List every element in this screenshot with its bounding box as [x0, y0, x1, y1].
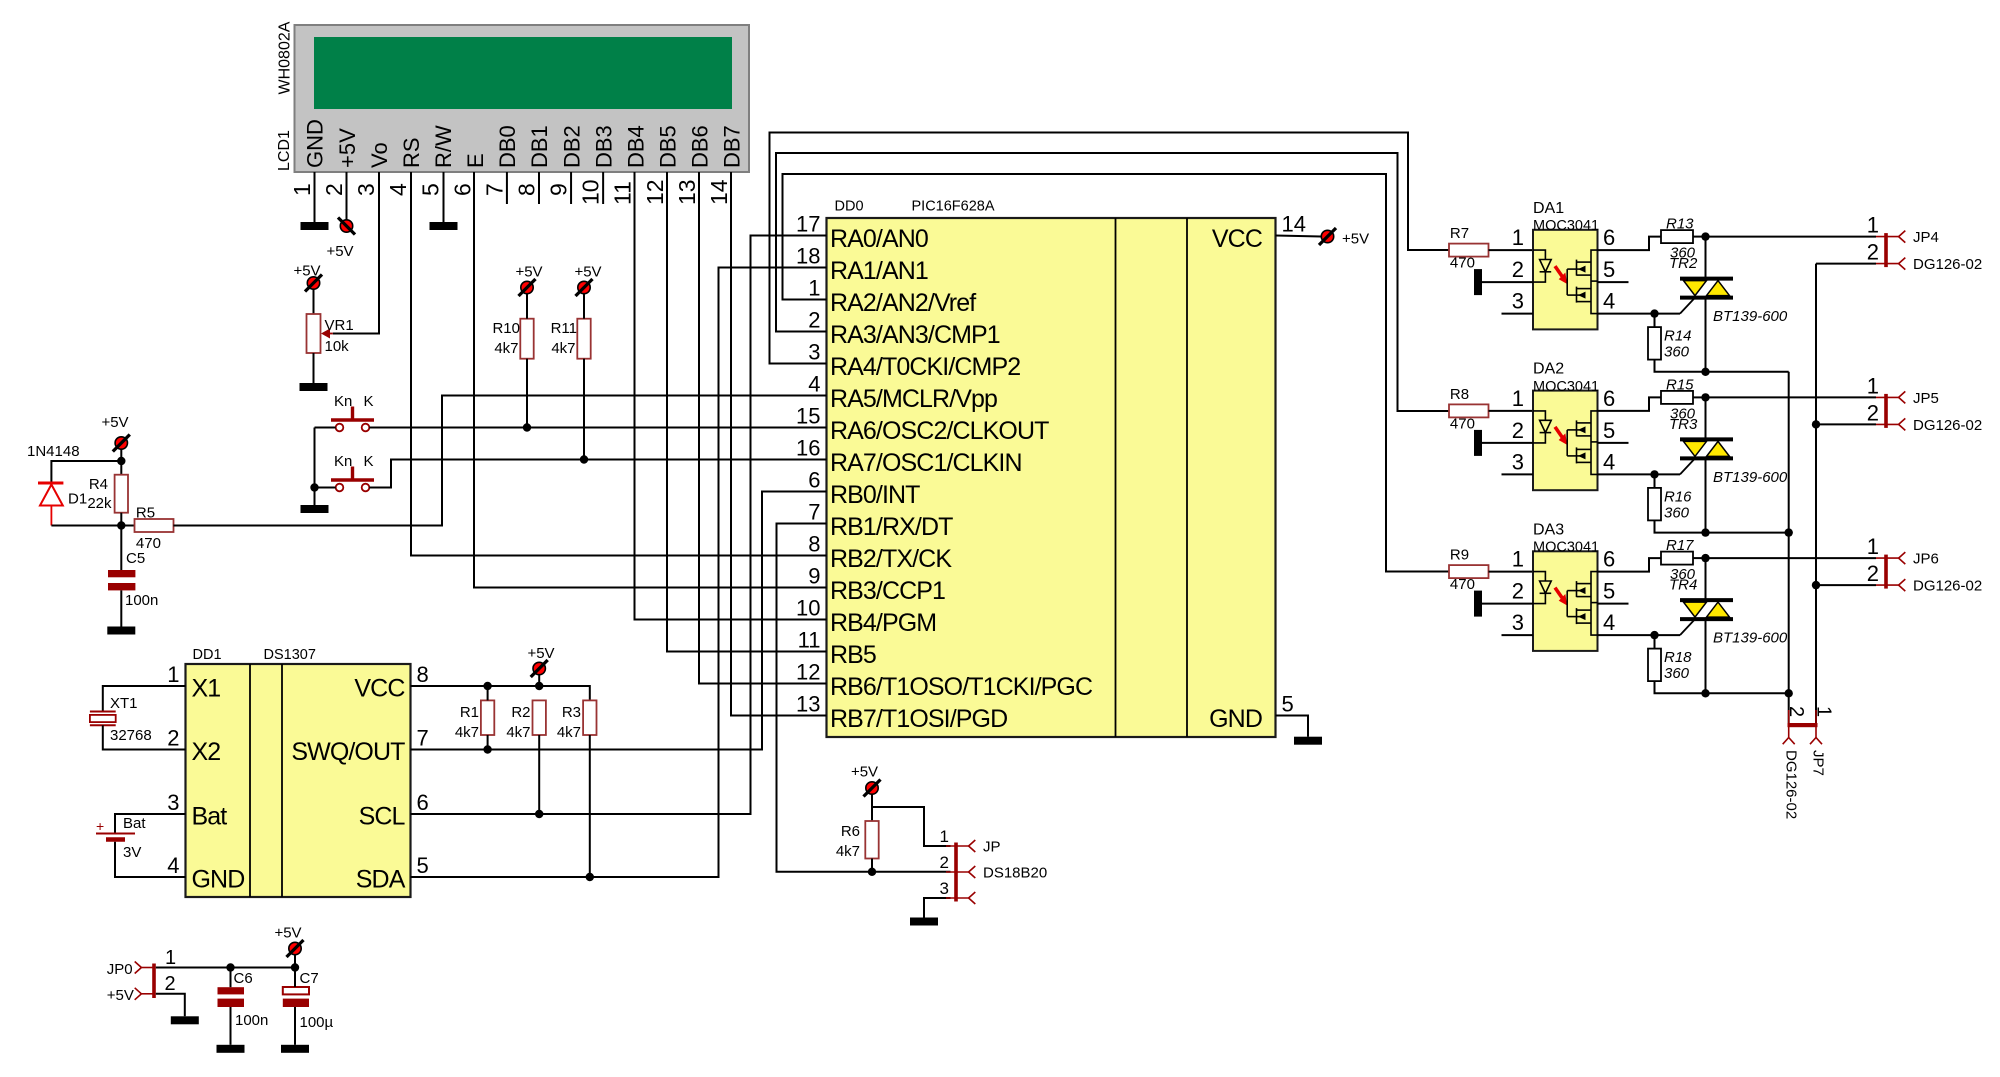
- svg-text:14: 14: [1282, 212, 1306, 237]
- svg-text:RA0/AN0: RA0/AN0: [830, 225, 928, 253]
- connector JP7 DG126-02: [1782, 706, 1834, 819]
- R2 labels: [506, 704, 530, 741]
- wire JP0 pin1 rail: [156, 967, 295, 969]
- svg-text:DB2: DB2: [559, 125, 584, 168]
- svg-text:SCL: SCL: [359, 803, 406, 831]
- resistor R14 360: [1648, 314, 1661, 360]
- wire node to triac MT2: [1705, 397, 1707, 439]
- svg-text:9: 9: [808, 564, 820, 589]
- C6 labels: [234, 970, 269, 1029]
- svg-text:5: 5: [1603, 418, 1615, 443]
- LCD label WH0802A: [277, 21, 294, 94]
- LCD1 pin label DB5: [655, 125, 680, 168]
- LCD1 pin number 10: [578, 179, 604, 205]
- resistor R7 470: [1449, 244, 1489, 257]
- svg-text:1: 1: [940, 827, 949, 846]
- +5V symbol: [101, 414, 129, 452]
- wire button1 right to RA6: [369, 427, 826, 429]
- +5V symbol: [851, 764, 881, 797]
- junction: [291, 963, 299, 971]
- svg-text:15: 15: [796, 404, 820, 429]
- connector JP6: [1867, 534, 1982, 595]
- wire RB1 to DS18B20 data: [777, 524, 951, 872]
- svg-text:7: 7: [417, 726, 429, 751]
- wire triac MT1 down: [1705, 458, 1707, 532]
- XT1 labels: [110, 695, 152, 744]
- battery Bat 3V: [96, 818, 135, 840]
- DD0 pin names and numbers left: [796, 212, 1093, 733]
- svg-text:5: 5: [417, 853, 429, 878]
- junction: [1701, 689, 1709, 697]
- svg-text:DD1: DD1: [193, 647, 222, 663]
- wire pin6 to R13: [1598, 237, 1662, 251]
- svg-text:360: 360: [1664, 665, 1690, 682]
- wire R2 bottom: [538, 735, 540, 814]
- DA3 pin numbers: [1512, 547, 1616, 636]
- R15 labels: [1666, 376, 1698, 433]
- resistor R17 360: [1661, 552, 1693, 565]
- wire E net (LCD pin6 to RB3): [474, 172, 827, 588]
- wire triac MT1 down: [1705, 619, 1707, 693]
- svg-text:RB5: RB5: [830, 641, 876, 669]
- svg-text:BT139-600: BT139-600: [1713, 630, 1788, 647]
- svg-text:+5V: +5V: [293, 263, 320, 280]
- wire buttons common to ground: [314, 428, 316, 506]
- wire DD1 VCC rail: [411, 686, 590, 700]
- svg-text:DG126-02: DG126-02: [1913, 578, 1982, 595]
- svg-text:17: 17: [796, 212, 820, 237]
- pin2 bar: [1474, 430, 1482, 456]
- svg-text:1: 1: [1867, 373, 1879, 398]
- wire node to JP4 pin1: [1706, 236, 1877, 238]
- svg-text:470: 470: [1450, 576, 1475, 593]
- wire +5V stub: [538, 675, 540, 686]
- LCD1 pin number 1: [289, 183, 315, 196]
- svg-text:2: 2: [167, 726, 179, 751]
- svg-text:3: 3: [167, 790, 179, 815]
- wire +5V to VR1: [313, 290, 315, 315]
- resistor R3 4k7: [583, 700, 596, 735]
- svg-text:3: 3: [940, 879, 949, 898]
- svg-text:3V: 3V: [123, 844, 141, 861]
- svg-text:R5: R5: [136, 505, 155, 522]
- svg-text:1: 1: [289, 183, 315, 196]
- wire DB6 net: [699, 172, 827, 684]
- wire D1 anode to node: [51, 525, 134, 527]
- svg-text:SWQ/OUT: SWQ/OUT: [291, 738, 405, 766]
- svg-text:4: 4: [1603, 610, 1615, 635]
- svg-text:1: 1: [1867, 213, 1879, 238]
- resistor R1 4k7: [481, 686, 494, 735]
- svg-text:11: 11: [798, 628, 821, 653]
- svg-text:4k7: 4k7: [506, 724, 530, 741]
- svg-text:JP: JP: [983, 839, 1001, 856]
- Kn2 labels: [334, 453, 374, 470]
- wire SCL to RA0: [411, 236, 827, 815]
- svg-text:2: 2: [1512, 418, 1524, 443]
- wire pin4 gate: [1598, 313, 1681, 315]
- svg-text:RB3/CCP1: RB3/CCP1: [830, 577, 945, 605]
- svg-text:470: 470: [1450, 255, 1475, 272]
- svg-text:R6: R6: [841, 823, 860, 840]
- svg-text:+5V: +5V: [107, 987, 134, 1004]
- wire neutral vertical: [1815, 264, 1817, 723]
- svg-text:+5V: +5V: [527, 645, 554, 662]
- resistor R15 360: [1661, 391, 1693, 404]
- connector JP0: [135, 947, 176, 1000]
- svg-text:PIC16F628A: PIC16F628A: [912, 199, 995, 215]
- microcontroller U DD0 PIC16F628A box: [827, 218, 1276, 737]
- svg-text:TR3: TR3: [1669, 416, 1698, 433]
- wire pin4 gate: [1598, 473, 1681, 475]
- wire LCD pin1 to ground: [314, 172, 316, 222]
- resistor R4 22k: [115, 475, 128, 513]
- svg-text:1: 1: [808, 276, 820, 301]
- R7 labels: [1450, 225, 1475, 272]
- LCD1 pin number 7: [481, 183, 507, 196]
- svg-text:TR2: TR2: [1669, 255, 1698, 272]
- DD0 type label: [912, 199, 995, 215]
- R16 labels: [1664, 488, 1692, 521]
- DA2 pin numbers: [1512, 386, 1616, 475]
- svg-text:+5V: +5V: [851, 764, 878, 781]
- svg-text:+5V: +5V: [1342, 231, 1369, 248]
- LCD1 pin number 5: [417, 183, 443, 196]
- svg-text:+5V: +5V: [326, 243, 353, 260]
- LCD1 pin label RS: [399, 137, 424, 168]
- LCD1 pin label Vo: [367, 142, 392, 168]
- ground: [301, 505, 329, 513]
- svg-text:R3: R3: [562, 704, 581, 721]
- wire pin3 stub: [1502, 313, 1534, 315]
- svg-text:360: 360: [1664, 504, 1690, 521]
- svg-text:+5V: +5V: [574, 264, 601, 281]
- junction: [1650, 309, 1658, 317]
- wire LCD DB0 stub: [506, 172, 508, 204]
- svg-text:R/W: R/W: [431, 125, 456, 168]
- svg-text:11: 11: [610, 181, 636, 205]
- wire pin2: [1482, 603, 1533, 605]
- svg-text:18: 18: [796, 244, 820, 269]
- svg-text:R7: R7: [1450, 225, 1469, 242]
- junction: [117, 457, 125, 465]
- svg-text:DB0: DB0: [495, 125, 520, 168]
- LCD1 pin label DB2: [559, 125, 584, 168]
- svg-text:4k7: 4k7: [494, 340, 518, 357]
- svg-text:R15: R15: [1666, 376, 1694, 393]
- LCD1 pin number 8: [513, 183, 539, 196]
- junction: [1812, 581, 1820, 589]
- svg-text:RB2/TX/CK: RB2/TX/CK: [830, 545, 952, 573]
- svg-text:4k7: 4k7: [836, 843, 860, 860]
- wire R6 bottom: [871, 859, 873, 872]
- capacitor C6 100n: [218, 968, 245, 1045]
- svg-text:DB1: DB1: [527, 125, 552, 168]
- wire button2 right to RA7: [369, 460, 826, 488]
- R5 labels: [136, 505, 161, 553]
- LCD1 pin number 3: [353, 183, 379, 196]
- svg-text:RA5/MCLR/Vpp: RA5/MCLR/Vpp: [830, 385, 997, 413]
- DA2 labels: [1533, 361, 1599, 395]
- svg-text:WH0802A: WH0802A: [277, 21, 294, 94]
- svg-text:XT1: XT1: [110, 695, 138, 712]
- svg-text:5: 5: [417, 183, 443, 196]
- svg-text:2: 2: [1785, 706, 1807, 717]
- svg-text:32768: 32768: [110, 727, 152, 744]
- wire JP4 pin2 to neutral: [1816, 263, 1876, 265]
- wire +5V to C7: [294, 955, 296, 968]
- svg-text:VCC: VCC: [1212, 225, 1263, 253]
- wire VR1 bottom to ground: [313, 353, 315, 383]
- wire pin5 stub: [1598, 603, 1629, 605]
- svg-text:1: 1: [1512, 547, 1524, 572]
- svg-text:2: 2: [1512, 257, 1524, 282]
- junction: [226, 963, 234, 971]
- wire battery to GND pin: [115, 842, 186, 877]
- svg-text:JP5: JP5: [1913, 390, 1939, 407]
- wire LCD DB3 stub: [602, 172, 604, 204]
- ground: [217, 1045, 245, 1053]
- svg-text:RB6/T1OSO/T1CKI/PGC: RB6/T1OSO/T1CKI/PGC: [830, 673, 1093, 701]
- wire DD0 GND to ground: [1276, 716, 1309, 737]
- R8 labels: [1450, 386, 1475, 433]
- triac TR4 BT139-600: [1680, 600, 1733, 635]
- JP0 labels: [107, 961, 134, 1004]
- junction: [1812, 420, 1820, 428]
- wire button1 left: [315, 427, 336, 429]
- ground: [171, 1016, 199, 1024]
- svg-text:1: 1: [167, 662, 179, 687]
- resistor R9 470: [1449, 565, 1489, 578]
- svg-text:6: 6: [1603, 547, 1615, 572]
- svg-text:8: 8: [513, 183, 539, 196]
- R11 labels: [551, 320, 577, 357]
- D1 labels: [27, 443, 87, 508]
- triac TR3 BT139-600: [1680, 439, 1733, 474]
- svg-text:DB6: DB6: [688, 125, 713, 168]
- TR4 value label: [1713, 630, 1788, 647]
- LCD green screen: [314, 37, 732, 109]
- connector JP4: [1867, 213, 1982, 274]
- svg-text:DD0: DD0: [835, 199, 864, 215]
- svg-text:2: 2: [1867, 561, 1879, 586]
- wire R13 to node: [1693, 557, 1706, 559]
- ground: [430, 222, 458, 230]
- svg-text:DB4: DB4: [623, 125, 648, 168]
- resistor R6 4k7: [865, 821, 878, 859]
- R10 labels: [492, 320, 520, 357]
- svg-text:6: 6: [808, 468, 820, 493]
- svg-text:360: 360: [1664, 344, 1690, 361]
- wire pin5 stub: [1598, 442, 1629, 444]
- svg-text:+5V: +5V: [274, 925, 301, 942]
- wire Rin to pin1: [1489, 410, 1534, 412]
- ground: [281, 1045, 309, 1053]
- wire DB5 net: [667, 172, 827, 652]
- R1 labels: [455, 704, 479, 741]
- pin2 bar: [1474, 269, 1482, 295]
- wire R14 bottom to MT1: [1655, 520, 1706, 532]
- svg-text:DA1: DA1: [1533, 200, 1564, 217]
- wire R3 bottom: [589, 735, 591, 877]
- svg-text:VCC: VCC: [354, 675, 405, 703]
- wire pin6 to R13: [1598, 558, 1662, 572]
- wire node to JP6 pin1: [1706, 557, 1877, 559]
- svg-text:5: 5: [1282, 692, 1294, 717]
- LCD1 pin label DB7: [720, 125, 745, 168]
- pushbutton Kn1: [331, 407, 374, 432]
- wire MT1 to common: [1706, 532, 1789, 534]
- svg-text:RS: RS: [399, 137, 424, 168]
- TR2 value label: [1713, 308, 1788, 325]
- svg-text:2: 2: [940, 853, 949, 872]
- svg-text:MOC3041: MOC3041: [1533, 540, 1599, 556]
- svg-text:12: 12: [796, 660, 820, 685]
- Kn1 labels: [334, 393, 374, 410]
- wire pin3 stub: [1502, 634, 1534, 636]
- +5V symbol: [515, 264, 542, 297]
- LCD1 pin label DB4: [623, 125, 648, 168]
- svg-text:BT139-600: BT139-600: [1713, 469, 1788, 486]
- svg-text:RA1/AN1: RA1/AN1: [830, 257, 928, 285]
- svg-text:R8: R8: [1450, 386, 1469, 403]
- +5V symbol: [1319, 228, 1369, 248]
- wire node to triac MT2: [1705, 558, 1707, 600]
- svg-text:4: 4: [385, 183, 411, 196]
- wire button2 left: [315, 487, 336, 489]
- svg-text:JP4: JP4: [1913, 229, 1939, 246]
- DD1 ref label: [193, 647, 222, 663]
- junction: [1650, 631, 1658, 639]
- svg-text:R14: R14: [1664, 328, 1692, 345]
- LCD1 pin number 13: [674, 179, 700, 205]
- wire SDA to RA1: [411, 268, 827, 878]
- junction: [1701, 528, 1709, 536]
- svg-text:3: 3: [353, 183, 379, 196]
- wire pin2: [1482, 281, 1533, 283]
- pin2 bar: [1474, 591, 1482, 617]
- wire LCD pin5 to ground: [443, 172, 445, 222]
- R18 labels: [1664, 649, 1692, 682]
- connector JP DS18B20: [940, 827, 1048, 904]
- wire R11 to RA7 net: [583, 359, 585, 460]
- svg-text:5: 5: [1603, 579, 1615, 604]
- DD0 ref label: [835, 199, 864, 215]
- wire RA3 net to R8: [776, 153, 1449, 411]
- svg-text:1N4148: 1N4148: [27, 443, 80, 460]
- +5V symbol: [326, 218, 355, 261]
- svg-text:R9: R9: [1450, 547, 1469, 564]
- Bat labels: [123, 815, 146, 861]
- wire MT1 to common: [1706, 692, 1789, 694]
- svg-text:K: K: [364, 393, 374, 410]
- svg-text:10: 10: [578, 179, 604, 205]
- svg-text:13: 13: [796, 692, 820, 717]
- junction: [586, 873, 594, 881]
- junction: [1785, 528, 1793, 536]
- svg-text:JP0: JP0: [107, 961, 133, 978]
- wire MT1 common vertical: [1788, 372, 1790, 723]
- svg-text:R2: R2: [511, 704, 530, 721]
- wire R14 bottom to MT1: [1655, 681, 1706, 693]
- wire RA2 net to R9: [783, 174, 1450, 572]
- potentiometer VR1 10k: [307, 314, 333, 353]
- svg-text:5: 5: [1603, 257, 1615, 282]
- svg-text:GND: GND: [1209, 705, 1262, 733]
- wire LCD DB2 stub: [570, 172, 572, 204]
- svg-text:6: 6: [449, 183, 475, 196]
- svg-text:BT139-600: BT139-600: [1713, 308, 1788, 325]
- svg-text:E: E: [463, 153, 488, 168]
- svg-text:K: K: [364, 453, 374, 470]
- svg-text:TR4: TR4: [1669, 577, 1697, 594]
- svg-text:DB7: DB7: [720, 125, 745, 168]
- wire R4 bottom: [120, 513, 122, 526]
- LCD1 pin number 11: [610, 181, 636, 205]
- svg-text:4k7: 4k7: [455, 724, 479, 741]
- svg-text:RA7/OSC1/CLKIN: RA7/OSC1/CLKIN: [830, 449, 1022, 477]
- svg-text:2: 2: [1867, 400, 1879, 425]
- ground: [910, 918, 938, 926]
- junction: [310, 483, 318, 491]
- LCD1 pin label GND: [303, 119, 328, 168]
- svg-text:1: 1: [165, 947, 176, 969]
- +5V symbol: [574, 264, 601, 297]
- svg-text:8: 8: [417, 662, 429, 687]
- junction: [483, 745, 491, 753]
- wire pin2: [1482, 442, 1533, 444]
- crystal XT1 32768: [90, 712, 116, 726]
- junction: [1785, 689, 1793, 697]
- svg-text:12: 12: [642, 179, 668, 205]
- svg-text:10k: 10k: [325, 338, 350, 355]
- wire pin4 gate: [1598, 634, 1681, 636]
- resistor R2 4k7: [533, 700, 546, 735]
- svg-text:+5V: +5V: [101, 414, 128, 431]
- wire X1 to crystal: [103, 686, 186, 712]
- svg-text:Kn: Kn: [334, 453, 352, 470]
- wire JP5 pin2 to neutral: [1816, 423, 1876, 425]
- svg-text:DS1307: DS1307: [264, 647, 316, 663]
- svg-text:DB3: DB3: [591, 125, 616, 168]
- wire SWQ/OUT to RB0: [411, 492, 827, 750]
- wire LCD pin2 to +5V: [346, 172, 348, 221]
- svg-text:1: 1: [1813, 706, 1835, 717]
- svg-text:3: 3: [1512, 449, 1524, 474]
- junction: [483, 682, 491, 690]
- svg-text:100µ: 100µ: [300, 1014, 334, 1031]
- svg-text:DG126-02: DG126-02: [1913, 417, 1982, 434]
- DA1 pin numbers: [1512, 225, 1616, 314]
- ground: [301, 222, 329, 230]
- svg-text:GND: GND: [192, 866, 245, 894]
- svg-text:VR1: VR1: [325, 317, 354, 334]
- DD1 type label: [264, 647, 316, 663]
- svg-text:4: 4: [1603, 289, 1615, 314]
- wire DD0 VCC to +5V: [1276, 236, 1322, 237]
- svg-text:LCD1: LCD1: [276, 130, 293, 171]
- svg-text:+5V: +5V: [335, 128, 360, 168]
- svg-text:SDA: SDA: [356, 866, 406, 894]
- wire Vo net (LCD pin3 to VR1 wiper): [333, 172, 379, 334]
- R4 labels: [87, 476, 112, 512]
- R9 labels: [1450, 547, 1475, 594]
- svg-text:4: 4: [167, 853, 179, 878]
- svg-text:7: 7: [808, 500, 820, 525]
- svg-text:+: +: [96, 818, 104, 834]
- svg-text:100n: 100n: [125, 592, 158, 609]
- ground: [107, 627, 135, 635]
